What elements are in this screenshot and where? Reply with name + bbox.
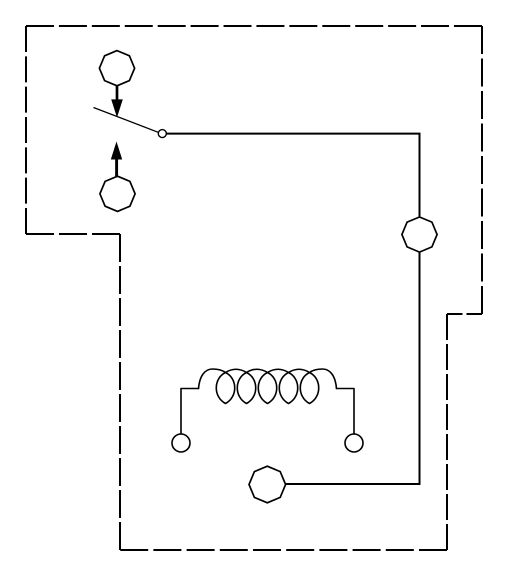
coil hump 2-3 <box>247 369 268 372</box>
coil hump 3-4 <box>268 369 289 372</box>
outline left step edge <box>26 233 120 235</box>
outline bottom edge <box>120 549 447 551</box>
outline top edge <box>26 25 482 27</box>
terminal T1 (top octagon) <box>99 51 134 86</box>
coil right lead <box>337 389 355 435</box>
outline right lower edge <box>446 314 448 550</box>
coil petal 3 <box>258 373 276 404</box>
coil hump 4-5 <box>289 369 310 372</box>
coil terminal left (small circle) <box>172 434 190 452</box>
coil terminal right (small circle) <box>345 434 363 452</box>
coil petal 4 <box>279 373 297 404</box>
wire: pivot to right side, down to terminal <box>166 134 419 217</box>
outline left upper edge <box>25 26 27 234</box>
outline right upper edge <box>481 26 483 314</box>
coil L1 (5-loop winding) <box>181 369 354 434</box>
terminal T2 (lower switch octagon) <box>100 176 135 211</box>
terminal (bottom octagon) <box>249 466 286 503</box>
coil first hump <box>199 369 226 389</box>
coil left lead <box>181 389 199 435</box>
actuator arrow up <box>111 142 122 177</box>
wire: right vertical run down to bottom corner <box>419 252 421 484</box>
coil petal 5 <box>300 373 318 404</box>
coil petal 2 <box>237 373 255 404</box>
coil hump 1-2 <box>226 369 247 372</box>
outline left lower edge <box>119 234 121 550</box>
terminal (right octagon) <box>402 217 437 252</box>
switch blade SW1 <box>94 108 159 133</box>
outline right step edge <box>447 313 482 315</box>
actuator arrow down <box>111 86 123 118</box>
wire: bottom octagon to right vertical run <box>286 483 421 485</box>
coil last hump <box>310 369 337 389</box>
switch pivot contact <box>158 130 166 138</box>
coil petal 1 <box>216 373 234 404</box>
